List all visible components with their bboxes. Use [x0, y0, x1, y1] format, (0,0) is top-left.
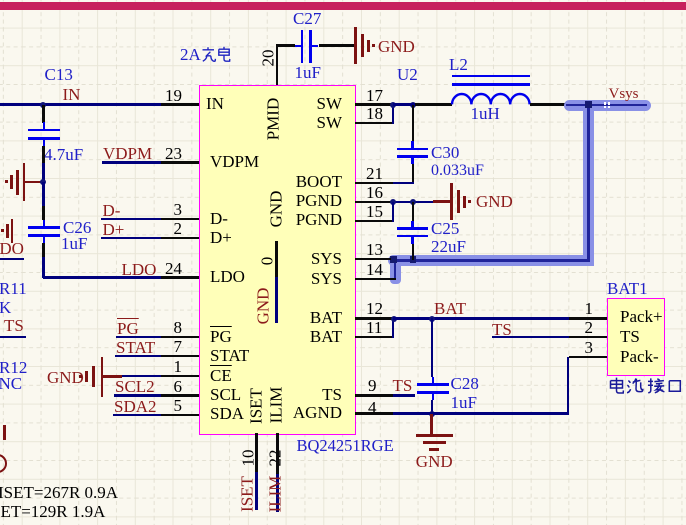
pin name left 2	[210, 210, 228, 227]
capacitor C26 bottom pin	[42, 243, 44, 257]
capacitor C28	[417, 383, 449, 386]
net IN wire	[0, 103, 161, 105]
pin 3 stub	[161, 218, 199, 220]
pin 16 stub	[355, 201, 393, 203]
net label GND rotated inside IC	[254, 288, 271, 325]
net label TS left edge	[4, 317, 24, 334]
pin 17 stub	[355, 103, 393, 105]
net label STAT	[116, 339, 155, 356]
pin number 0 rotated	[258, 257, 275, 266]
pin 19 stub	[161, 103, 199, 105]
L2 core bar 2	[452, 83, 530, 85]
pin name right 1	[317, 114, 343, 131]
value C27 1uF	[295, 64, 321, 81]
value K left edge	[0, 299, 11, 316]
pin 18 stub	[355, 122, 393, 124]
wire inductor to Vsys	[530, 103, 566, 105]
BAT1 pin number 3	[585, 339, 594, 356]
capacitor C26 top pin	[42, 206, 44, 220]
pin name PMID rotated	[264, 98, 281, 141]
pin name right 9	[322, 386, 342, 403]
pin 6 stub	[161, 394, 199, 396]
caption battery connector (chinese)	[608, 377, 682, 400]
pin name right 3	[296, 192, 342, 209]
pin 11 stub	[355, 336, 393, 338]
pin name left 9	[210, 405, 244, 422]
pin name right 6	[311, 270, 342, 287]
designator U2	[397, 66, 418, 83]
op IC U2 body	[199, 85, 356, 435]
BAT1 pin name TS	[620, 328, 640, 345]
junction BAT a	[391, 316, 397, 322]
pin 4 stub	[355, 412, 393, 414]
pin name right 0	[317, 95, 343, 112]
capacitor C30	[397, 148, 428, 151]
pin name left 1	[210, 153, 259, 170]
wire C30 down to BOOT row	[412, 164, 414, 183]
title bar	[0, 2, 686, 10]
value C25	[431, 238, 466, 255]
highlighted net halo pin14 jog	[390, 255, 401, 284]
pin number 13	[366, 241, 383, 258]
wire PG	[116, 336, 161, 338]
designator R12 left edge	[0, 359, 27, 376]
net label Vsys	[609, 87, 639, 102]
wire pin11 up to pin12	[392, 318, 394, 338]
highlighted net SYS halo bottom	[388, 255, 595, 266]
net label D-	[103, 202, 121, 219]
pin 0 line inside IC	[275, 241, 277, 278]
wire AGND to junction	[393, 412, 432, 414]
pin number 4	[368, 399, 377, 416]
capacitor C25	[397, 227, 428, 230]
BAT1 pin name Pack+	[620, 308, 663, 325]
pin 12 stub	[355, 317, 393, 319]
wire pin18 to pin17	[392, 105, 394, 125]
wire CE	[122, 375, 161, 377]
BAT1 pin 1 stub	[569, 317, 607, 319]
pin 22 line ILIM	[276, 433, 278, 474]
label GND bottom	[416, 453, 453, 470]
text NC left edge	[0, 375, 22, 392]
pin number 17	[366, 87, 383, 104]
wire C13 to GND junction	[42, 163, 44, 182]
value L2 1uH	[471, 105, 500, 122]
pin 9 stub	[355, 394, 393, 396]
pin name right 7	[310, 309, 342, 326]
partial ground symbol left edge	[1, 229, 4, 232]
wire GND junction to C26	[42, 182, 44, 207]
note line 1	[0, 484, 118, 501]
wire TS to BAT1 pin2	[492, 336, 569, 338]
cut net label LDO left edge	[0, 240, 24, 257]
wire STAT	[115, 355, 161, 357]
BAT1 pin number 1	[585, 300, 594, 317]
Vsys wire core vertical	[587, 104, 590, 261]
pin name left 7	[210, 367, 232, 384]
left edge wire stub 1	[0, 258, 24, 260]
junction AGND	[429, 411, 435, 417]
designator C28	[451, 375, 479, 392]
pin name right 8	[310, 328, 342, 345]
pin 8 stub	[161, 336, 199, 338]
pin number 15	[366, 203, 383, 220]
pin 15 stub	[355, 220, 393, 222]
pin name ISET rotated	[248, 388, 265, 424]
wire SW junction down to C30	[412, 105, 414, 142]
pin number 16	[366, 184, 383, 201]
pin number 22 rotated	[267, 450, 284, 467]
BAT1 pin name Pack-	[620, 348, 659, 365]
pin 20 PMID vertical	[276, 44, 278, 85]
wire D-	[101, 218, 161, 220]
wire BAT1 pin3 vertical	[567, 357, 569, 415]
partial red line left edge	[3, 425, 6, 440]
pin 5 stub	[161, 414, 199, 416]
pin name left 6	[210, 347, 249, 364]
wire junction to C13	[42, 105, 44, 124]
net label BAT	[434, 300, 466, 317]
wire from pin 0 inside IC	[275, 277, 277, 323]
pin number 24	[165, 260, 182, 277]
connector BAT1 body	[607, 298, 665, 376]
wire D+	[101, 237, 161, 239]
capacitor C13	[28, 129, 61, 132]
BAT1 pin 2 stub	[569, 336, 607, 338]
pin number 9	[368, 377, 377, 394]
junction SYS/C25	[410, 256, 416, 262]
wire pin15 up to pin16	[392, 202, 394, 222]
net label SDA2	[114, 398, 157, 415]
wire PGND to GND	[393, 201, 433, 203]
selection marks on Vsys wire	[604, 102, 606, 104]
pin name left 5	[210, 328, 232, 345]
pin14 jog wire core	[394, 259, 397, 280]
designator C25	[431, 220, 459, 237]
power ground symbol mid	[450, 183, 453, 220]
net label SCL2	[115, 378, 155, 395]
note line 2	[0, 503, 105, 520]
pin number 2	[174, 220, 183, 237]
L2 core bar 1	[452, 75, 530, 77]
wire pin20 to C27	[277, 44, 295, 46]
wire LDO horizontal	[43, 276, 161, 278]
wire C25 down to SYS row	[412, 244, 414, 260]
wire SDA2	[113, 414, 161, 416]
pin number 14	[366, 261, 383, 278]
pin 2 stub	[161, 237, 199, 239]
highlighted net Vsys halo vertical	[583, 100, 594, 267]
wire into ground symbol mid	[433, 200, 451, 203]
pin name left 4	[210, 268, 245, 285]
SYS wire core bottom	[391, 259, 590, 262]
net label IN	[63, 86, 81, 103]
pin number 1	[174, 358, 183, 375]
net label TS at BAT1	[492, 321, 512, 338]
power ground symbol at CE	[79, 375, 82, 378]
pin 10 line ISET	[255, 433, 257, 472]
pin number 6	[174, 378, 183, 395]
designator C26	[63, 219, 91, 236]
pin 1 stub	[161, 375, 199, 377]
value C28 1uF	[451, 394, 477, 411]
wire PGND junction down to C25	[412, 202, 414, 221]
pin number 12	[366, 300, 383, 317]
pin number 8	[174, 319, 183, 336]
pin number 10 rotated	[239, 450, 256, 467]
pin number 7	[174, 338, 183, 355]
pin number 18	[366, 105, 383, 122]
designator C30	[431, 144, 459, 161]
label GND mid	[476, 193, 513, 210]
wire C28 down to AGND row	[431, 400, 433, 414]
wire TS pin9	[393, 394, 415, 396]
earth ground symbol below C28	[430, 414, 433, 436]
capacitor C27	[301, 30, 304, 63]
net label ISET rotated	[238, 476, 255, 512]
junction SW b	[410, 102, 416, 108]
capacitor C13 bottom pin	[42, 146, 44, 163]
wire SW to inductor	[393, 103, 416, 105]
wire C26 to LDO row	[42, 257, 44, 278]
pin 14 stub	[355, 278, 396, 280]
pin number 20 rotated	[259, 50, 276, 67]
wire SCL2	[114, 394, 161, 396]
value C30	[431, 163, 484, 179]
net label ILIM rotated	[267, 476, 284, 513]
capacitor C26	[28, 226, 61, 229]
pin 21 stub	[355, 182, 393, 184]
pin number 19	[165, 87, 182, 104]
pin number 11	[366, 319, 382, 336]
pin 24 stub	[161, 276, 199, 278]
net label LDO	[122, 261, 157, 278]
power ground symbol left	[23, 163, 26, 201]
net label PG	[117, 320, 139, 337]
value C13 4.7uF	[44, 146, 83, 163]
designator C13	[45, 66, 73, 83]
pin name ILIM rotated	[268, 386, 285, 423]
wire ILIM	[276, 474, 278, 513]
wire BAT junction down to C28	[431, 318, 433, 377]
pin name right 10	[293, 404, 342, 421]
designator C27	[293, 10, 321, 27]
inductor left pin stub	[415, 103, 452, 105]
pin 7 stub	[161, 355, 199, 357]
designator BAT1	[607, 280, 648, 297]
junction IN/C13	[40, 102, 46, 108]
junction PGND a	[390, 199, 396, 205]
pin name left 0	[206, 95, 224, 112]
label GND at CE	[47, 369, 84, 386]
designator L2	[449, 56, 468, 73]
wire to ground symbol left	[25, 181, 43, 184]
text 2A charging (chinese)	[180, 46, 232, 63]
junction Vsys	[585, 101, 592, 108]
pin number 23	[165, 145, 182, 162]
wire ISET	[255, 472, 257, 511]
comment BQ24251RGE	[297, 438, 394, 455]
power ground symbol top	[354, 27, 357, 64]
pin number 5	[174, 397, 183, 414]
pin 23 stub	[161, 161, 199, 163]
highlighted net Vsys halo top	[564, 100, 651, 111]
net label VDPM	[103, 145, 152, 162]
designator R11 left edge	[0, 280, 27, 297]
pin number 3	[174, 201, 183, 218]
wire AGND junction to BAT1 pin3	[432, 412, 570, 414]
pin name right 2	[296, 173, 342, 190]
junction BAT b	[429, 316, 435, 322]
label GND top	[378, 38, 415, 55]
value C26 1uF	[61, 235, 87, 252]
inductor L2	[450, 89, 532, 106]
left edge wire stub 2	[0, 336, 26, 338]
Vsys wire core top	[566, 104, 647, 107]
BAT1 pin number 2	[585, 319, 594, 336]
wire BAT horizontal	[393, 317, 569, 319]
wire BOOT horizontal	[393, 182, 414, 184]
BAT1 pin 3 stub	[569, 356, 607, 358]
pin name right 4	[296, 211, 342, 228]
pin 13 stub	[355, 258, 391, 260]
wire VDPM	[102, 161, 161, 163]
pin name left 8	[210, 386, 241, 403]
pin name right 5	[311, 250, 342, 267]
net label D+	[103, 221, 125, 238]
junction SW a	[390, 102, 396, 108]
junction PGND b	[410, 199, 416, 205]
pin number 21	[366, 165, 383, 182]
junction SYS pins	[390, 256, 396, 262]
pin name left 3	[210, 229, 232, 246]
junction GND left	[40, 179, 46, 185]
pin name GND rotated	[268, 191, 285, 228]
wire C27 to GND	[319, 44, 355, 46]
net label TS pin9	[393, 377, 413, 394]
partial red arc left edge	[0, 454, 7, 473]
